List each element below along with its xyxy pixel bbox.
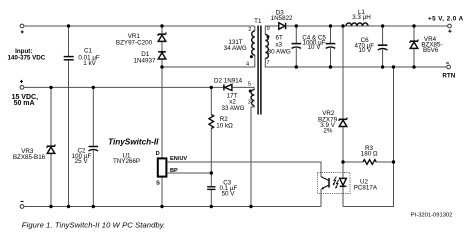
svg-text:D: D [156,151,160,157]
node ground / C3 [210,205,213,208]
resistor R3 [361,145,378,164]
terminal 15VDC [12,80,39,107]
svg-text:5: 5 [248,82,251,88]
node RTN rail / C5 [329,65,332,68]
svg-text:BZY97-C200: BZY97-C200 [116,40,153,47]
svg-text:10 kΩ: 10 kΩ [216,123,233,130]
wire top primary rail [24,25,255,27]
wire secondary pin7 lead to RTN rail [265,59,447,68]
node clamp / pin4 [160,65,163,68]
resistor R2 [209,115,233,130]
svg-text:Figure 1. TinySwitch-II 10 W P: Figure 1. TinySwitch-II 10 W PC Standby. [22,221,165,230]
wire secondary feedback bottom [343,67,394,207]
wire primary pin2 lead [254,26,256,31]
node ground / C2 [92,205,95,208]
svg-text:1N4937: 1N4937 [134,57,156,64]
wire opto emitter to ground rail [320,189,322,207]
node 15V rail / R2 [210,86,213,89]
wire VR2 feedback branch [342,26,344,119]
svg-text:RTN: RTN [442,73,455,80]
node RTN rail / C4 [295,65,298,68]
svg-text:7: 7 [266,60,269,66]
svg-text:S: S [156,180,160,186]
svg-text:30 AWG: 30 AWG [268,49,291,56]
capacitor C5 [302,35,335,52]
inductor L1 [346,9,371,26]
svg-text:2%: 2% [323,128,332,135]
optocoupler U2 PC817A [318,172,378,193]
terminal RTN [442,63,455,80]
svg-text:D2 1N914: D2 1N914 [214,77,243,84]
svg-text:PC817A: PC817A [354,184,378,191]
wire drain vertical from clamp node to U1 [161,59,163,158]
zener VR2 [318,110,347,134]
wire EN/UV pin to optocoupler [168,162,321,177]
opto light arrows [334,177,339,188]
wire secondary pin9 lead [265,26,278,35]
node R3 / feedback right [392,160,395,163]
opto LED [340,178,347,185]
svg-text:BP: BP [170,168,178,174]
node top rail / clamp [160,24,163,27]
wire D3 cathode to +5V rail [286,25,449,27]
svg-text:TNY266P: TNY266P [113,158,140,165]
wire R3 right [376,161,393,163]
IC U1 TNY266P TinySwitch-II [108,138,187,187]
svg-text:10 V: 10 V [308,44,322,51]
svg-text:10 V: 10 V [358,47,372,54]
svg-text:25 V: 25 V [75,158,89,165]
node RTN rail / feedback [392,65,395,68]
node +5 rail / C4 [295,24,298,27]
node ground / C1 [67,205,70,208]
svg-text:TinySwitch-II: TinySwitch-II [108,138,159,147]
opto phototransistor [328,178,330,188]
wire U1 source to ground rail [161,178,163,207]
svg-text:34 AWG: 34 AWG [224,45,247,52]
wire C6 branch [382,26,384,45]
wire R2 branch from 15V rail [210,87,212,114]
wire VR4 branch [413,26,415,41]
diode D3 [271,10,293,30]
node 15V rail / C2 [92,86,95,89]
svg-text:9: 9 [267,26,270,32]
wire R2 to BP node [210,129,212,174]
svg-text:33 AWG: 33 AWG [221,105,244,112]
wire C2 branch [92,87,94,146]
wire 15V rail [24,86,224,88]
node ground / VR3 [49,205,52,208]
svg-text:50 V: 50 V [222,191,236,198]
terminal input positive [7,24,45,61]
wire C4 branch [295,26,297,43]
wire BP pin [168,172,212,174]
node +5 rail / VR2 [341,24,344,27]
wire opto LED cathode down [342,187,344,207]
wire primary ground rail [24,206,321,208]
primary winding 131T [252,31,255,55]
diode D2 [214,77,243,90]
node +5 rail / VR4 [412,24,415,27]
secondary winding 6T [265,35,268,59]
node +5 rail / C6 [381,24,384,27]
svg-text:PI-3201-091302: PI-3201-091302 [411,212,453,218]
svg-text:EN/UV: EN/UV [170,156,187,162]
svg-text:180 Ω: 180 Ω [361,151,378,158]
svg-text:x3: x3 [275,41,282,48]
svg-text:T1: T1 [254,18,262,25]
svg-text:1 kV: 1 kV [83,60,96,67]
zener VR4 [410,36,443,54]
node BP / C3 [210,171,213,174]
capacitor C3 [207,180,237,198]
node RTN rail / C6 [381,65,384,68]
wire primary pin4 lead to clamp node [162,55,255,67]
wire clamp branch vertical (VR1/D1) [161,26,163,34]
wire bias winding pin3 lead down to ground rail [251,106,254,207]
svg-text:+5 V, 2.0 A: +5 V, 2.0 A [428,15,464,22]
svg-text:B5V6: B5V6 [423,47,439,54]
bias winding 17T [251,90,254,106]
svg-text:1N5822: 1N5822 [271,15,293,22]
node VR2 / R3 [341,160,344,163]
node +5 rail / C5 [329,24,332,27]
node 15V rail / VR3 [49,86,52,89]
svg-text:3: 3 [248,100,251,106]
wire BP node to C3 and ground [210,173,212,186]
capacitor C6 [355,37,388,54]
svg-text:140-375 VDC: 140-375 VDC [7,55,45,62]
wire C5 branch [330,26,332,43]
node top rail / C1 [67,24,70,27]
capacitor C4 [292,44,302,49]
zener VR1 [116,32,166,46]
wire C1 branch [68,26,70,56]
svg-text:50 mA: 50 mA [14,100,35,107]
svg-text:4: 4 [246,62,249,68]
diode D1 [134,51,166,64]
node ground / source [160,205,163,208]
zener VR3 [13,144,55,161]
svg-text:BZX85-B16: BZX85-B16 [13,154,46,161]
wire VR3 branch [50,87,52,146]
transformer T1 [221,18,290,115]
svg-text:2: 2 [248,27,251,33]
node RTN rail / VR4 [412,65,415,68]
wire bias winding pin5 lead [253,87,255,89]
capacitor C2 [72,147,98,165]
capacitor C1 [64,48,100,67]
wire R3 left [343,161,363,163]
terminal +5V output [428,15,464,32]
svg-text:3.3 µH: 3.3 µH [352,14,371,21]
terminal primary return negative [20,201,24,208]
node ground / bias pin3 [249,205,252,208]
